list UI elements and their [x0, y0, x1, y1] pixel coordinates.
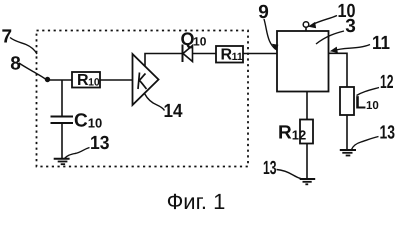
- svg-text:8: 8: [10, 54, 21, 75]
- svg-text:3: 3: [345, 16, 356, 37]
- svg-text:14: 14: [164, 101, 183, 122]
- svg-text:7: 7: [2, 27, 13, 48]
- svg-text:9: 9: [258, 2, 269, 23]
- svg-text:13: 13: [380, 123, 396, 144]
- svg-text:13: 13: [263, 158, 277, 179]
- svg-text:Фиг. 1: Фиг. 1: [167, 189, 226, 214]
- svg-text:12: 12: [380, 72, 394, 93]
- svg-text:11: 11: [372, 33, 390, 54]
- svg-text:13: 13: [90, 133, 110, 154]
